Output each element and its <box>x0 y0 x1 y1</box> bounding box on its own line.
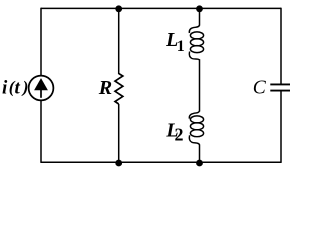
junction dot bottom R <box>115 160 122 167</box>
junction dot top L <box>196 5 203 12</box>
svg-text:2: 2 <box>175 125 184 145</box>
svg-text:R: R <box>98 77 112 99</box>
svg-text:i: i <box>2 78 8 99</box>
junction dot top R <box>115 5 122 12</box>
top rail wire <box>41 7 281 9</box>
svg-text:): ) <box>21 78 29 97</box>
resistor R bottom lead wire <box>118 104 120 162</box>
capacitor branch top lead wire <box>280 8 282 85</box>
inductor branch bottom lead wire <box>199 144 201 162</box>
svg-text:1: 1 <box>177 38 185 55</box>
middle wire between L1 and L2 <box>199 59 201 111</box>
svg-text:C: C <box>253 78 267 99</box>
bottom rail wire <box>41 161 281 163</box>
resistor R branch: top lead wire <box>118 8 120 74</box>
current source I1 circle <box>29 76 54 101</box>
left branch wire upper <box>40 8 42 76</box>
capacitor C bottom plate <box>270 90 290 92</box>
junction dot bottom L <box>196 160 203 167</box>
current source arrow <box>34 78 48 98</box>
inductor branch top lead wire <box>199 8 201 25</box>
resistor R zigzag <box>115 74 123 105</box>
capacitor C top plate <box>270 83 290 85</box>
inductor L2 coil <box>189 111 203 145</box>
capacitor branch bottom lead wire <box>280 91 282 163</box>
svg-text:t: t <box>15 78 21 99</box>
left branch wire lower <box>40 100 42 163</box>
inductor L1 coil <box>189 25 203 60</box>
